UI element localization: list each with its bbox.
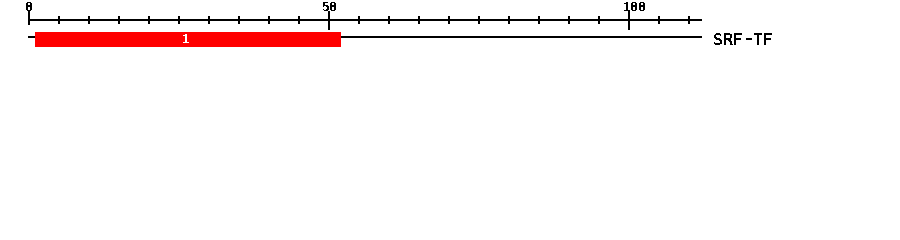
- ruler minor ticks every 5 residues: [58, 16, 60, 24]
- ruler label 100: [624, 2, 645, 11]
- protein domain graphic: residue ruler + red SRF-TF domain bar: [0, 0, 900, 58]
- ruler label 50: [323, 2, 336, 11]
- domain index label 1 (white): [183, 34, 189, 43]
- ruler label 0: [26, 2, 32, 11]
- ruler major tick at position 50: [328, 11, 330, 30]
- ruler major tick at position 100: [628, 11, 630, 30]
- protein backbone line left stub: [28, 36, 35, 38]
- background: [0, 0, 900, 58]
- SRF-TF domain bar (red): [35, 32, 341, 47]
- family name label SRF-TF: [714, 33, 772, 45]
- protein backbone line right segment: [341, 36, 702, 38]
- ruler axis line: [28, 19, 702, 21]
- ruler major tick at position 0: [28, 11, 30, 25]
